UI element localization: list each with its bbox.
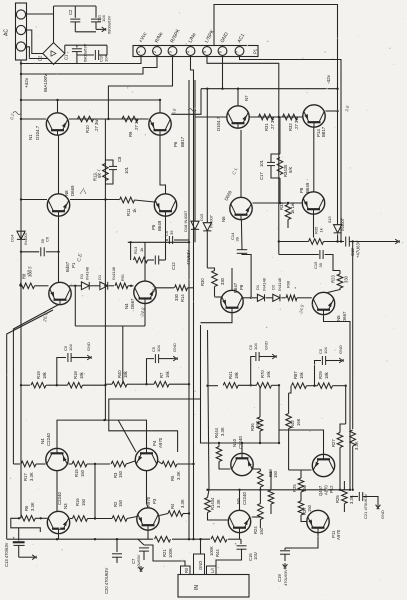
svg-text:R24: R24 (253, 526, 258, 534)
svg-text:3.3K: 3.3K (220, 427, 225, 436)
handwriting mark 2 (188, 109, 196, 112)
wire q467 top (279, 430, 324, 454)
svg-text:R25: R25 (292, 484, 297, 492)
svg-text:D104.7: D104.7 (35, 125, 40, 140)
svg-text:GND: GND (198, 561, 203, 570)
wire N8 collector to N1 base (58, 136, 60, 194)
svg-text:R30: R30 (200, 278, 205, 286)
resistor R12 5K (103, 164, 109, 181)
wire n10 base (219, 462, 230, 470)
resistor R9 .27 3w (122, 116, 138, 122)
wire bridge bottom (53, 63, 55, 66)
wire right bus x279 (278, 385, 280, 443)
ground C7 (140, 566, 142, 569)
diode D2 IN4148 (266, 297, 273, 299)
svg-text:D667: D667 (342, 311, 347, 322)
resistor R5 3.3K (162, 461, 177, 467)
resistor R25 150 (298, 478, 304, 492)
svg-text:+: + (13, 536, 16, 541)
svg-text:R32: R32 (288, 123, 293, 131)
capacitor C5 104 gnd group1 (57, 358, 66, 386)
wire R/Ne feedback (21, 57, 157, 75)
svg-text:16k: 16k (299, 371, 304, 379)
connector IN box (178, 575, 249, 598)
svg-text:P1: P1 (71, 262, 76, 268)
capacitor C20 470U63V (116, 539, 118, 552)
svg-text:R41: R41 (228, 371, 233, 379)
svg-text:R21: R21 (162, 549, 167, 557)
svg-text:6800u63V: 6800u63V (107, 15, 112, 34)
svg-text:IN4148: IN4148 (262, 277, 267, 291)
transistor N8 D669 (47, 194, 69, 216)
svg-text:R26: R26 (335, 495, 340, 503)
capacitor C5 104 gnd group4 (315, 361, 322, 386)
wire center bus B (208, 330, 210, 490)
resistor R2 150 (112, 516, 127, 522)
wire P14 emitter to P8 (313, 128, 315, 192)
pin L/Ne (186, 47, 195, 56)
svg-text:N7: N7 (244, 95, 249, 101)
diode D1 IN4148 (69, 285, 82, 287)
wire row326 (75, 325, 145, 327)
wire N10 collector (241, 443, 243, 453)
capacitor C13 470/63V (11, 518, 41, 532)
svg-text:N1: N1 (28, 134, 33, 140)
wire L/Ne bus down (191, 57, 194, 540)
svg-text:6: 6 (219, 51, 223, 53)
transistor N9 C2240 (228, 510, 250, 532)
svg-text:GND: GND (264, 341, 269, 350)
svg-text:150: 150 (259, 527, 264, 535)
svg-text:Q467: Q467 (318, 485, 323, 496)
diode D18 IN4007 (194, 80, 196, 221)
svg-text:P5: P5 (151, 224, 156, 230)
svg-text:GND: GND (172, 343, 177, 352)
svg-text:C2240: C2240 (57, 492, 62, 505)
svg-text:5/K: 5/K (288, 167, 293, 173)
svg-text:7: 7 (236, 51, 240, 53)
svg-text:3.3K: 3.3K (29, 472, 34, 481)
svg-text:C19: C19 (277, 574, 282, 582)
transistor P8 B649 (302, 192, 324, 214)
wire row385 left (21, 384, 30, 386)
capacitor C18 +47U63V (345, 237, 347, 247)
capacitor C14 39 (237, 249, 248, 251)
wire P9 collector (231, 268, 233, 290)
svg-text:1k 1w: 1k 1w (290, 202, 295, 214)
wire row489 (260, 489, 350, 491)
svg-text:.27 3w: .27 3w (134, 118, 139, 131)
svg-text:3.3K: 3.3K (354, 441, 359, 450)
svg-text:B817: B817 (321, 126, 326, 137)
diode D15 IN4007 (206, 89, 208, 223)
capacitor C17 101 (271, 154, 280, 162)
wire AC1 to right bus (240, 57, 342, 242)
capacitor C15 39 (279, 254, 319, 256)
svg-text:R5: R5 (170, 475, 175, 481)
svg-text:D669: D669 (70, 185, 75, 196)
diode D14 IN4007 (17, 231, 25, 239)
svg-text:R70: R70 (260, 370, 265, 378)
svg-text:D1: D1 (79, 273, 84, 279)
wire right mid bus (279, 117, 281, 154)
capacitor C11 104 (95, 6, 97, 18)
svg-text:R6: R6 (24, 505, 29, 511)
svg-text:GND: GND (86, 342, 91, 351)
svg-text:L/I: L/I (210, 568, 215, 573)
svg-text:104: 104 (253, 343, 258, 350)
capacitor C16 10U (239, 533, 241, 539)
wire drop to bias row (122, 326, 124, 384)
svg-text:16K: 16K (296, 418, 301, 426)
svg-text:C13 470/63V: C13 470/63V (4, 542, 9, 567)
resistor R10 .27 3w (78, 116, 94, 122)
capacitor C5 39 (166, 239, 169, 241)
resistor R17 3.3K (21, 461, 36, 467)
wire P4-P3 vertical (146, 471, 148, 504)
svg-text:104: 104 (101, 15, 106, 22)
transistor Q467 A970 P12 (312, 454, 334, 476)
svg-text:39: 39 (235, 236, 240, 241)
wire output bus right (278, 117, 280, 255)
svg-text:IN4007: IN4007 (209, 214, 214, 228)
wire P8 emitter down (313, 215, 315, 238)
svg-text:18k: 18k (324, 371, 329, 379)
pin +Vcc (137, 47, 146, 56)
svg-text:470U63V: 470U63V (283, 569, 288, 586)
svg-text:IN: IN (194, 585, 200, 590)
wire diagonal to P4 (118, 420, 136, 452)
svg-text:C20 470U63V: C20 470U63V (104, 567, 109, 594)
pad GND (194, 554, 205, 575)
svg-text:1k: 1k (139, 248, 144, 252)
transistor N3 C2240 (47, 511, 69, 533)
diode D1 IN4148 (257, 294, 264, 301)
pin L/SPK (203, 47, 212, 56)
wire right drop (345, 386, 347, 424)
svg-text:B647: B647 (233, 282, 238, 293)
svg-text:10U: 10U (253, 552, 258, 560)
transistor N5 D667 (312, 292, 334, 314)
svg-text:C2240: C2240 (242, 492, 247, 505)
svg-text:N9: N9 (236, 498, 241, 504)
wire emitter line row1 right (250, 116, 303, 118)
wire P11 bottom (292, 533, 318, 548)
svg-text:R44: R44 (215, 549, 220, 557)
transistor P5 B649 (154, 194, 176, 216)
svg-text:101: 101 (259, 159, 264, 167)
svg-text:.27 3w: .27 3w (94, 119, 99, 132)
svg-text:150: 150 (302, 484, 307, 492)
handwriting mark (13, 112, 21, 115)
resistor R15 150 (72, 461, 87, 467)
svg-text:330: 330 (220, 277, 225, 285)
wire N3 emitter (58, 534, 60, 539)
svg-text:GND: GND (338, 345, 343, 354)
svg-text:-42v: -42v (326, 74, 331, 84)
wire mid horizontals (128, 241, 189, 243)
wire emitter line row1 left (69, 118, 149, 120)
svg-text:N3: N3 (63, 503, 68, 509)
resistor R16 150 (73, 516, 88, 522)
svg-text:3.3K: 3.3K (176, 471, 181, 480)
capacitor C7 10U63V (138, 539, 144, 545)
resistor R11 1k (120, 197, 135, 203)
svg-text:4: 4 (187, 51, 191, 53)
svg-text:D14: D14 (10, 234, 15, 242)
resistor R13 1k (130, 242, 132, 260)
svg-text:A970: A970 (158, 437, 163, 448)
svg-text:C17: C17 (259, 172, 264, 180)
transistor N10 C2240 (231, 453, 253, 475)
ground (96, 28, 101, 30)
wire N4-N3 vertical (56, 471, 58, 512)
svg-text:3.3K: 3.3K (180, 499, 185, 508)
svg-text:R19: R19 (36, 371, 41, 379)
pad R/I (181, 566, 191, 575)
svg-text:3: 3 (169, 51, 173, 53)
svg-text:P6: P6 (173, 141, 178, 147)
resistor R14 330 (155, 287, 174, 289)
resistor R3 150 (111, 461, 126, 467)
svg-text:P8: P8 (299, 187, 304, 193)
svg-text:330: 330 (174, 293, 179, 301)
svg-text:D1: D1 (97, 274, 102, 280)
wire P6 emitter to P5 (160, 136, 166, 194)
wire N8 emitter down (58, 217, 60, 283)
svg-text:P12: P12 (329, 485, 334, 493)
svg-text:39: 39 (169, 230, 174, 235)
wire R/I pad (144, 545, 185, 566)
svg-text:150: 150 (118, 499, 123, 507)
connector AC block (16, 3, 27, 60)
wire inner bus (188, 80, 190, 539)
svg-text:18k: 18k (42, 371, 47, 379)
capacitor C19 470U63V (285, 547, 292, 549)
svg-text:D2: D2 (271, 284, 276, 290)
resistor R4 3.3K (168, 511, 183, 517)
wire row385 right A (208, 385, 219, 387)
resistor R91 (109, 285, 114, 287)
capacitor C12 47U63V (148, 259, 155, 261)
resistor R27 (337, 433, 343, 448)
wire N7 base stub (195, 116, 227, 118)
wire N6 collector (240, 130, 242, 197)
svg-text:P1: P1 (253, 48, 258, 54)
svg-text:D18 IN4007: D18 IN4007 (183, 210, 188, 232)
wire N4 emitter (144, 304, 146, 327)
transistor P7 B467 (49, 282, 71, 304)
svg-text:5: 5 (203, 51, 207, 53)
svg-text:18k: 18k (123, 370, 128, 378)
svg-text:C8: C8 (117, 156, 122, 162)
resistor R18 18k (68, 382, 83, 388)
wire N1 base line (21, 118, 46, 120)
wire stub 201 (171, 89, 201, 115)
svg-text:IN4007: IN4007 (340, 217, 345, 231)
transistor P14 B817 (303, 105, 325, 127)
svg-text:R11: R11 (126, 208, 131, 216)
svg-text:P4: P4 (152, 440, 157, 446)
resistor R3435 5K (277, 158, 283, 175)
svg-text:IN4148: IN4148 (277, 277, 282, 291)
svg-text:18k: 18k (234, 371, 239, 379)
svg-text:330: 330 (344, 275, 349, 283)
wire mid bus left (104, 119, 106, 420)
connector P1 bar (133, 46, 258, 57)
resistor R38b 150 (268, 490, 274, 504)
svg-text:R18: R18 (73, 371, 78, 379)
resistor R31 .27 3W (259, 114, 274, 120)
wire C14 to diode node (242, 253, 251, 297)
diode 015 IN4007 right (334, 225, 342, 233)
resistor R33 1k 1w (285, 205, 291, 220)
svg-text:B467: B467 (65, 261, 70, 272)
svg-text:6800u63V: 6800u63V (83, 43, 88, 62)
svg-text:R16: R16 (75, 498, 80, 506)
svg-text:IN4007: IN4007 (23, 231, 28, 245)
wire P9 base link (201, 313, 233, 323)
wire N7 collector (237, 89, 239, 106)
resistor R40 18k (112, 381, 127, 387)
svg-text:D104.7: D104.7 (216, 116, 221, 131)
svg-text:39: 39 (318, 262, 323, 267)
svg-text:150: 150 (118, 470, 123, 478)
wire P6 collector (159, 100, 161, 113)
svg-text:+47U63V: +47U63V (356, 240, 361, 258)
svg-text:N4: N4 (40, 438, 45, 444)
svg-text:B817: B817 (180, 136, 185, 147)
svg-text:C6: C6 (45, 236, 50, 242)
wire L/SPK to output node (207, 57, 279, 118)
wire input node link (57, 420, 147, 448)
resistor R1434 3.3K (205, 498, 211, 513)
handwriting (80, 188, 86, 194)
svg-text:150: 150 (273, 470, 278, 478)
wire N8 emitter line (70, 199, 119, 201)
svg-text:16k: 16k (266, 370, 271, 378)
svg-text:R40: R40 (117, 370, 122, 378)
svg-text:R444: R444 (214, 427, 219, 438)
svg-text:IN4148: IN4148 (85, 266, 90, 280)
svg-text:N6: N6 (221, 216, 226, 222)
wire P3 emitter (147, 530, 149, 539)
svg-text:IN4148: IN4148 (111, 266, 116, 280)
wire bridge right (64, 45, 66, 53)
wire node443 (219, 442, 279, 444)
transistor N4 D667 (134, 281, 156, 303)
svg-text:D15: D15 (199, 213, 204, 221)
svg-text:150: 150 (81, 498, 86, 506)
wire gnd pad (200, 539, 202, 554)
svg-text:150: 150 (80, 469, 85, 477)
svg-text:C2240: C2240 (46, 433, 51, 446)
svg-text:R15: R15 (74, 469, 79, 477)
svg-text:R10: R10 (85, 125, 90, 133)
wire N5 collector (327, 290, 341, 293)
svg-text:100K: 100K (168, 548, 173, 558)
capacitor C6 39 (21, 251, 39, 253)
svg-text:R91: R91 (121, 274, 125, 281)
svg-text:R14: R14 (180, 294, 185, 302)
wire top border rail (214, 5, 338, 225)
svg-text:R23: R23 (331, 275, 336, 283)
svg-text:R27: R27 (331, 439, 336, 447)
svg-text:GND: GND (380, 510, 385, 519)
svg-text:C1: C1 (64, 54, 69, 60)
transistor P3 A970 (137, 508, 159, 530)
wire AC to bridge (26, 13, 54, 15)
svg-text:R42: R42 (290, 420, 295, 428)
wire N8 base line (21, 199, 47, 201)
transistor P11 A970 (307, 510, 329, 532)
resistor R32 .27 3W (283, 114, 298, 120)
wire N6 base (253, 202, 303, 204)
svg-text:N5: N5 (336, 315, 341, 321)
resistor 3.3K vertical (350, 430, 356, 446)
svg-text:10U63V: 10U63V (136, 554, 141, 569)
svg-text:104: 104 (156, 345, 161, 352)
wire to P5 (135, 200, 155, 202)
wire diagonal left (13, 305, 58, 465)
resistor R38 150 (258, 471, 264, 487)
capacitor C5 104 gnd group2 (147, 359, 155, 385)
resistor R37 150 (298, 501, 304, 515)
svg-text:N8: N8 (64, 190, 69, 196)
resistor R35 1k (279, 241, 309, 243)
svg-text:18k: 18k (79, 371, 84, 379)
transistor N1 D1047 (46, 113, 68, 135)
svg-text:R4: R4 (170, 503, 175, 509)
wire bottom rail (7, 538, 153, 540)
wire P9 to diodes (242, 297, 257, 299)
svg-text:C21 470U63V: C21 470U63V (363, 494, 368, 519)
svg-text:C2: C2 (68, 9, 73, 15)
pin GND (218, 47, 227, 56)
svg-text:D667: D667 (130, 298, 135, 309)
resistor R44 100K (211, 536, 227, 542)
wire N1 collector (57, 100, 59, 113)
wire +Vcc rail +42 (21, 57, 141, 64)
wire N5 emitter to right bus (324, 316, 351, 490)
capacitor C2 (74, 6, 76, 18)
resistor R87 16k (292, 383, 307, 389)
bridge rectifier D2 (43, 43, 65, 65)
transistor P4 A970 (135, 448, 157, 470)
wire bridge top rail (53, 6, 55, 43)
svg-text:100K: 100K (209, 546, 214, 556)
resistor R8 330 (20, 283, 35, 289)
capacitor C21 470U63V (350, 496, 358, 498)
capacitor C8 101 (105, 160, 113, 166)
svg-text:R8: R8 (22, 273, 27, 279)
wire P9 left (215, 296, 222, 298)
svg-text:.27 3W: .27 3W (270, 117, 275, 130)
wire rail +42 row1 (21, 99, 160, 101)
svg-text:+42v: +42v (24, 77, 29, 88)
svg-text:R31: R31 (264, 123, 269, 131)
resistor R42 16K (286, 414, 292, 429)
wire GND pin to -42 rail (222, 57, 224, 89)
svg-text:104: 104 (323, 347, 328, 354)
resistor R21 100K (155, 536, 171, 542)
svg-text:B649: B649 (305, 182, 310, 193)
pin R/Ne (153, 47, 162, 56)
resistor R41 18k (223, 383, 238, 389)
svg-text:47U63V: 47U63V (186, 250, 191, 265)
diode D1b IN4148 (90, 285, 100, 287)
transistor P6 B817 (149, 113, 171, 135)
